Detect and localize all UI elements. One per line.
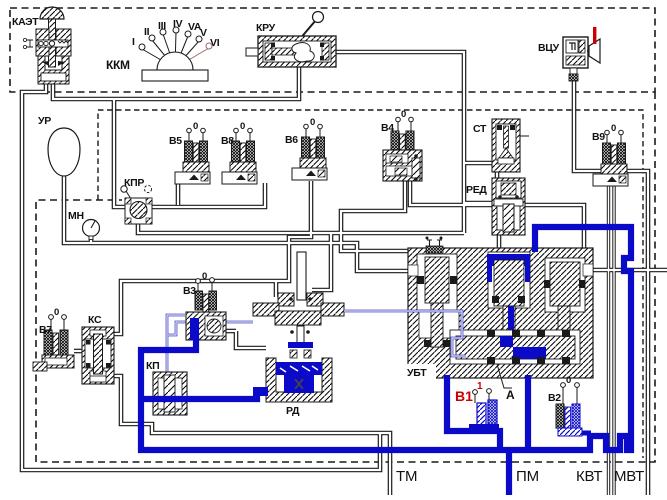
svg-text:0: 0 [566,375,571,386]
wire B5 riser core [177,183,179,205]
wire B7 to KS [74,349,84,354]
leader A [497,364,512,388]
svg-text:V: V [200,27,207,39]
svg-text:ВЦУ: ВЦУ [538,42,560,54]
svg-text:IV: IV [173,18,183,30]
svg-text:А: А [506,388,515,402]
wire B4 out left core [341,181,488,256]
dashed border top section [10,8,655,92]
KKM position VA [175,36,188,68]
valve B6 [285,117,327,180]
pilot line B3 to KP [167,315,185,372]
svg-text:КРУ: КРУ [256,22,276,34]
valve B5 [169,121,210,184]
wire branch to RD top [312,233,331,290]
KKM position IV [175,32,176,68]
valve B7 [33,307,74,371]
wire UR/MN line core [64,176,414,271]
svg-text:В1: В1 [455,388,473,404]
wire stub to RED core [464,202,492,204]
svg-text:В4: В4 [381,122,394,134]
wire KAET out1 left drain to TM return core [22,84,380,470]
dashed border inner box [98,110,643,458]
svg-text:VI: VI [210,37,220,49]
pilot line B3 to KP core [167,315,185,372]
svg-text:0: 0 [54,307,59,318]
svg-text:0: 0 [193,121,198,132]
pilot line RD to KP core [168,322,253,335]
wire UBT right exit [591,268,667,273]
blue line KP to RD [140,391,257,399]
wire UBT right exit core [591,269,667,271]
selector KKM [106,18,220,81]
valve KAET (clutch pneumatic) [23,7,71,84]
wire RD top drop1 core [275,281,277,297]
accumulator UR [48,128,80,176]
blue line UBT top to right drop with jog [535,227,631,450]
wire MVT line core [622,171,648,495]
wire MVT line [622,171,648,495]
svg-text:ПМ: ПМ [516,468,539,485]
wire ST to RED core [496,170,498,180]
wire KS to B6 line core [114,181,311,334]
wire B3 right stub [226,329,236,334]
wire KAET out1 left drain to TM return [22,84,380,470]
wire KPR line y233 [138,222,464,233]
pilot line RD to KP [168,322,253,335]
svg-text:0: 0 [310,117,315,128]
wire KRU out to ST/RED column [333,52,464,233]
svg-text:В8: В8 [221,135,234,147]
svg-text:МН: МН [68,210,84,222]
svg-text:В2: В2 [548,392,561,404]
svg-text:I: I [132,36,135,48]
KKM position V [175,41,199,68]
svg-text:0: 0 [202,271,207,282]
gauge MN [83,220,100,240]
KKM position III [163,34,175,68]
svg-text:II: II [144,26,150,38]
wire B4 out left [341,181,488,256]
KKM position VI [175,48,209,68]
valve B2 [548,375,582,436]
wire KPR line y233 core [138,222,464,233]
valve KP [153,372,187,415]
blue line PM drop [506,449,512,495]
svg-text:В6: В6 [285,134,298,146]
valve KPR (pressure limiter) [121,185,152,224]
wire RD left entry [236,331,266,348]
svg-text:В3: В3 [183,285,196,297]
gearbox control block UBT [406,237,593,380]
blue line UBT port A to B1 loop [447,375,500,451]
svg-text:1: 1 [477,381,483,392]
svg-text:КПР: КПР [124,177,144,189]
wire KAET out2 to KRU bottom [53,66,299,99]
wire MN stub core [90,236,92,243]
wire manifold B5/B8 [114,99,265,207]
svg-text:КАЭТ: КАЭТ [12,16,39,28]
svg-text:0: 0 [240,121,245,132]
svg-text:КП: КП [146,360,159,372]
wire branch to RD top core [312,233,331,290]
valve B4 (large solenoid) [381,109,422,181]
svg-text:III: III [158,20,166,32]
valve B8 [221,121,257,184]
svg-text:В5: В5 [169,135,182,147]
wire KVT drop A [607,172,610,495]
wire stub to ST [464,161,492,166]
valve RED (reducer) [492,178,525,235]
svg-text:ТМ: ТМ [396,468,417,485]
wire KS drain to TM core [114,376,390,495]
wire VTsU down to B9 [574,78,605,171]
regulator RD [253,252,344,402]
wire B4 out right to UBT [410,181,584,250]
svg-text:0: 0 [401,109,406,120]
wire stub to ST core [464,162,492,164]
svg-text:КС: КС [88,314,102,326]
wire VTsU down to B9 core [574,78,605,171]
wire B5 riser [176,183,181,205]
svg-text:РЕД: РЕД [466,184,487,196]
wire KS drain to TM [114,376,390,495]
wire KRU out to ST/RED column core [333,52,464,233]
valve KS (solenoid distributor) [82,327,114,384]
wire RD left entry core [236,331,266,348]
valve VTsU (clutch pedal unit) [563,37,600,81]
wire KVT drop B [612,172,615,495]
KKM position I [142,49,175,68]
dashed border main outer [36,92,655,462]
svg-text:УР: УР [38,115,51,127]
blue line B2 foot [571,431,591,436]
svg-text:В7: В7 [39,324,52,336]
wire KS to B6 line [114,181,311,334]
KKM position II [152,40,175,68]
wire KVT drop A core [608,172,610,495]
wire manifold B5/B8 core [114,99,265,207]
svg-text:0: 0 [611,123,616,134]
svg-text:КВТ: КВТ [576,468,602,485]
wire B7 to KS core [74,350,84,352]
wire stub to RED [464,201,492,206]
red mark I at VTsU [593,27,596,44]
valve B1 (blue, red label) [469,389,499,432]
wire UR/MN line [64,176,414,271]
svg-text:ККМ: ККМ [106,58,130,72]
blue line UBT bottom drain [525,375,531,451]
wire B4 out right to UBT core [410,181,584,250]
valve B9 [592,123,628,186]
svg-text:МВТ: МВТ [614,468,644,485]
wire KAET out2 to KRU bottom core [53,66,299,99]
valve B3 [183,271,226,340]
wire RD top drop1 [274,281,279,297]
svg-text:РД: РД [286,405,300,417]
valve KRU (manual control) [246,12,336,68]
wire MN stub [89,236,94,243]
pilot line RD to UBT [344,311,466,356]
svg-text:УБТ: УБТ [407,367,427,379]
wire RED to UBT core [498,232,500,252]
wire ST to RED [495,170,500,180]
valve ST [492,119,529,172]
svg-text:СТ: СТ [473,123,487,135]
wire RED to UBT [497,232,502,252]
svg-text:В9: В9 [592,131,605,143]
wire B3 right stub core [226,330,236,332]
wire KVT drop B core [613,172,615,495]
blue line B3-KP-bottom main with bridge [141,336,631,450]
